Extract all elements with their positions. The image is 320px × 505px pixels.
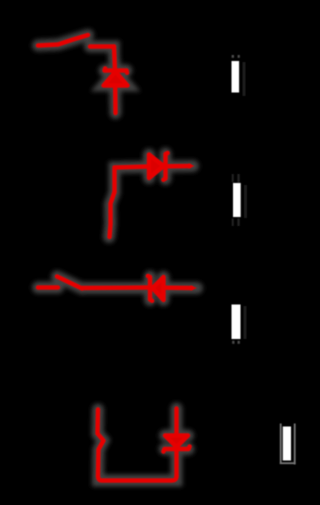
zener diode D1 triangle bbox=[104, 72, 128, 86]
wire: bottom-right vertical bbox=[174, 409, 178, 477]
zener diode D4 triangle (pointing down) bbox=[165, 436, 188, 448]
bar C pin 2 bbox=[238, 341, 240, 344]
zener diode D2 cathode bar with hooks bbox=[163, 153, 167, 180]
bar B pin stub top-right bbox=[237, 174, 239, 182]
wire: L corner through diode D2 to arrow (row 2) bbox=[115, 166, 190, 192]
zener diode D2 triangle (pointing right) bbox=[149, 155, 164, 179]
wire: SW2 through diode D3 to arrow end bbox=[82, 285, 192, 290]
bar A ghost bbox=[243, 62, 246, 96]
switch SW1 blade (open, top row) bbox=[58, 35, 88, 45]
wire: bottom horizontal bbox=[98, 476, 177, 481]
component bar C (white body, right, row 3) bbox=[232, 305, 247, 344]
wire: top-left source lead bbox=[38, 45, 58, 46]
zener diode D3 triangle bbox=[153, 277, 164, 300]
red annotated current path bbox=[38, 35, 192, 481]
wire: descending from row-2 corner with jog bbox=[110, 192, 115, 237]
bar B ghost bbox=[244, 185, 247, 218]
wire: vertical drop through D1, dead end bbox=[114, 47, 116, 114]
gray halo under red path (jpeg artifact glow) bbox=[38, 35, 197, 481]
bar C ghost bbox=[244, 306, 247, 339]
wire: bottom-left vertical with jog bbox=[98, 410, 104, 477]
bar D bracket bottom bbox=[280, 462, 296, 464]
zener diode D4 cathode bar with hooks bbox=[163, 446, 189, 451]
bar D bracket left bbox=[280, 424, 282, 465]
bar D bracket right bbox=[294, 424, 296, 465]
wire: tapered marker tip of D2 output arrow bbox=[189, 164, 195, 169]
wire: mid-left source lead (row 3) bbox=[38, 285, 58, 289]
bar B pin stub bottom-right bbox=[237, 219, 239, 227]
component bar A (white body, top right) bbox=[232, 55, 246, 96]
bar B pin stub bottom-left bbox=[232, 219, 234, 227]
wire: tapered marker tip of D3 output arrow bbox=[191, 286, 198, 291]
wire: SW1 right contact to corner bbox=[90, 44, 114, 48]
bar D white body bbox=[283, 427, 291, 461]
component bar B (white body, right, row 2) bbox=[232, 174, 247, 226]
zener diode D3 cathode bar with hooks (pointing left) bbox=[148, 276, 152, 301]
bar A pin 1 bbox=[232, 55, 234, 58]
bar C pin 1 bbox=[232, 341, 234, 344]
component bar D (white body in gray bracket, bottom right) bbox=[280, 424, 296, 465]
bar A pin 2 bbox=[238, 55, 240, 58]
zener diode D1 (cathode bar, pointing up) bar bbox=[105, 68, 128, 72]
switch SW2 blade (open, row 3) bbox=[57, 277, 82, 289]
bar B pin stub top-left bbox=[232, 174, 234, 182]
